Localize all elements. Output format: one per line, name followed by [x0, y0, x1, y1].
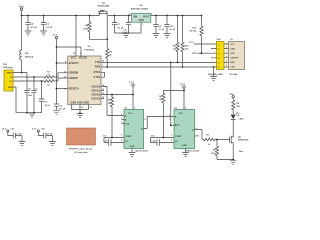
resistor R12	[181, 16, 184, 68]
svg-text:CTS#: CTS#	[94, 75, 101, 79]
ground	[77, 114, 84, 118]
svg-text:C5: C5	[28, 89, 30, 91]
CN2 ground	[213, 67, 215, 76]
svg-text:CN1: CN1	[3, 64, 8, 66]
capacitor C9	[153, 16, 158, 34]
svg-text:VCCIO: VCCIO	[79, 56, 87, 60]
svg-text:485/0.5A: 485/0.5A	[25, 55, 34, 58]
capacitor C17	[109, 139, 111, 145]
svg-text:2: 2	[121, 114, 122, 116]
capacitor C7	[112, 16, 117, 34]
resistor R9	[232, 100, 235, 114]
resistor R7	[204, 138, 230, 141]
supply VBUS top-left	[20, 8, 22, 10]
wire VCC drop to U2	[75, 16, 77, 57]
svg-text:GND: GND	[8, 87, 13, 89]
ferrite bead FB1	[20, 16, 22, 73]
svg-text:Q: Q	[141, 128, 143, 130]
capacitor C8	[126, 16, 131, 34]
svg-text:2: 2	[226, 47, 227, 49]
resistor R10	[200, 16, 203, 54]
svg-text:TXD: TXD	[95, 60, 100, 64]
svg-text:CX/RX: CX/RX	[125, 136, 132, 138]
wire U3 CLR stub	[122, 123, 125, 125]
IC U2 FT232RQ	[68, 56, 101, 105]
svg-text:CX: CX	[175, 141, 179, 143]
capacitor C12	[157, 139, 159, 145]
resistor R8	[215, 140, 233, 160]
wire U3 timing	[104, 138, 124, 143]
svg-text:4: 4	[196, 127, 197, 130]
U3 ground	[131, 149, 133, 153]
wire U5 timing	[151, 138, 175, 143]
svg-text:21: 21	[90, 107, 92, 109]
svg-text:27: 27	[48, 74, 50, 76]
svg-text:CBUS0: CBUS0	[91, 84, 100, 88]
ground	[40, 31, 47, 35]
wire top rail mid	[108, 15, 132, 17]
capacitor C6	[54, 104, 59, 110]
IC U5 monostable	[174, 110, 195, 149]
resistor R6	[162, 91, 165, 138]
svg-text:CX: CX	[125, 141, 129, 143]
svg-text:VOUT: VOUT	[143, 17, 150, 19]
svg-text:USBDM: USBDM	[69, 71, 79, 75]
Q2 ground	[232, 149, 234, 160]
U5 ground	[185, 149, 187, 153]
ground	[164, 33, 171, 37]
wire D+ with resistor R2	[13, 78, 68, 82]
svg-text:FT232RQ: FT232RQ	[84, 49, 94, 51]
wire U3 B stub	[122, 119, 125, 121]
svg-text:GND: GND	[139, 20, 144, 22]
resistor R4	[88, 16, 91, 40]
connector CN1	[4, 70, 13, 91]
svg-text:CBUS1: CBUS1	[91, 88, 100, 92]
svg-text:3: 3	[226, 52, 227, 54]
ground	[123, 33, 130, 37]
svg-text:47 µF: 47 µF	[45, 104, 51, 107]
svg-text:XBOARD-G400: XBOARD-G400	[208, 73, 224, 76]
svg-text:RTS#: RTS#	[94, 70, 101, 74]
capacitor C2	[39, 81, 45, 113]
capacitor C5	[24, 91, 29, 113]
svg-text:RUM002N02: RUM002N02	[238, 140, 248, 142]
wire top rail right (1.8V out)	[151, 15, 202, 17]
svg-text:22: 22	[102, 89, 104, 91]
wire P1.2 net	[194, 43, 214, 45]
resistor R11	[176, 16, 179, 63]
wire RESET#	[57, 88, 68, 90]
resistor R5	[110, 95, 113, 138]
LED D1	[231, 115, 236, 120]
wire U5 Q to LM1	[195, 130, 204, 140]
svg-text:100k: 100k	[83, 28, 89, 30]
capacitor C3	[41, 16, 46, 32]
svg-text:3.3 V: 3.3 V	[32, 129, 37, 131]
svg-text:RXD: RXD	[230, 62, 235, 64]
wire 3V3OUT	[57, 62, 68, 64]
svg-text:0.1 µF: 0.1 µF	[47, 133, 53, 135]
svg-text:RXD: RXD	[95, 64, 101, 68]
wire CBUS3 stub	[101, 98, 104, 100]
svg-text:16: 16	[64, 71, 66, 73]
svg-text:2: 2	[151, 14, 152, 16]
svg-text:ADP3347-18QKD: ADP3347-18QKD	[131, 8, 149, 11]
capacitor C4	[25, 16, 30, 32]
svg-text:USBDP: USBDP	[69, 76, 78, 80]
wire ground tie C7 C8 U4	[115, 22, 142, 33]
svg-text:1: 1	[226, 43, 227, 45]
svg-text:7: 7	[73, 107, 74, 109]
svg-text:1: 1	[121, 118, 122, 120]
svg-text:CP-2104: CP-2104	[229, 73, 238, 76]
wire RXD net	[101, 66, 214, 68]
capacitor C10	[164, 16, 169, 34]
wire VCCIO branch	[57, 47, 82, 56]
svg-text:VCC: VCC	[128, 113, 133, 115]
resistor R3	[106, 39, 109, 67]
svg-text:GND: GND	[182, 145, 187, 147]
svg-text:VCC: VCC	[179, 113, 184, 115]
svg-text:3.3 V: 3.3 V	[52, 34, 58, 36]
svg-text:VIN: VIN	[133, 17, 137, 19]
wire CBUS2 3.3V rail	[101, 94, 133, 96]
svg-text:30: 30	[102, 61, 104, 63]
svg-text:RESET#: RESET#	[69, 86, 80, 90]
svg-text:CBUS3: CBUS3	[91, 96, 100, 100]
svg-text:74LVC1G123: 74LVC1G123	[135, 149, 149, 152]
ground	[153, 33, 160, 37]
svg-text:74LVC1G123: 74LVC1G123	[186, 149, 200, 152]
svg-text:0.1 µF: 0.1 µF	[46, 27, 53, 29]
svg-text:23: 23	[102, 85, 104, 87]
svg-text:VBUS: VBUS	[7, 72, 13, 74]
svg-text:3V3OUT: 3V3OUT	[69, 61, 80, 65]
svg-text:2: 2	[102, 65, 103, 67]
svg-text:4: 4	[226, 55, 227, 58]
svg-text:GND GND GND: GND GND GND	[70, 100, 89, 104]
wire R4 to Q1 gate	[90, 38, 108, 40]
svg-text:2: 2	[169, 115, 170, 117]
svg-text:13: 13	[102, 93, 104, 95]
svg-text:CLR: CLR	[125, 124, 130, 126]
svg-text:3.3 V: 3.3 V	[180, 84, 185, 86]
svg-text:GND: GND	[130, 146, 135, 148]
svg-text:ON/OFF: ON/OFF	[230, 57, 239, 59]
wire U3 Q to U5 A	[144, 117, 175, 129]
svg-text:5: 5	[226, 61, 227, 63]
svg-text:Q: Q	[192, 130, 194, 132]
CN2 right stubs	[224, 44, 229, 67]
regulator U4	[132, 13, 151, 22]
svg-text:VCC: VCC	[71, 56, 77, 60]
svg-text:4.7 µF: 4.7 µF	[31, 26, 38, 29]
ground	[25, 31, 32, 35]
wire CBUS0 to U3	[101, 87, 124, 116]
svg-text:0.1 µF: 0.1 µF	[59, 109, 65, 111]
svg-text:19: 19	[64, 89, 66, 91]
svg-text:1: 1	[169, 119, 170, 121]
svg-text:0.5 mm pitch: 0.5 mm pitch	[74, 151, 88, 154]
wire RTS CTS loopback	[101, 72, 105, 77]
wire R6 top to U5 VCC	[163, 90, 184, 92]
svg-text:TXD: TXD	[230, 66, 235, 68]
svg-text:15: 15	[73, 53, 75, 55]
svg-text:6: 6	[171, 139, 172, 141]
svg-text:GND: GND	[230, 48, 235, 50]
capacitor C1 on D-	[31, 77, 36, 113]
wire ground rail	[16, 112, 42, 114]
svg-text:6: 6	[226, 65, 227, 67]
ground	[53, 110, 60, 114]
transistor Q2	[230, 136, 234, 149]
wire TXD net	[101, 61, 214, 63]
svg-text:UPS: UPS	[230, 53, 235, 55]
CN2 left stubs	[211, 44, 217, 67]
FFC cable note	[67, 128, 96, 145]
svg-text:8: 8	[65, 62, 66, 64]
svg-text:15: 15	[64, 77, 66, 79]
wire CBUS1 stub	[101, 90, 104, 92]
svg-text:FFC/FPC cable, 20-pin,: FFC/FPC cable, 20-pin,	[69, 149, 93, 151]
svg-text:VCC: VCC	[230, 44, 235, 46]
svg-text:1: 1	[142, 24, 143, 26]
svg-text:8: 8	[134, 108, 135, 110]
svg-text:6: 6	[121, 139, 122, 141]
svg-text:7: 7	[121, 134, 122, 136]
svg-text:D-: D-	[10, 77, 13, 79]
IC U3 monostable	[124, 110, 144, 149]
svg-text:10k (H): 10k (H)	[189, 31, 196, 33]
transistor Q1	[98, 12, 107, 40]
wire UPS net	[197, 52, 214, 54]
svg-text:0.1 µF: 0.1 µF	[16, 133, 22, 135]
svg-text:IRLML6402: IRLML6402	[98, 5, 110, 8]
svg-text:CX/RX: CX/RX	[175, 136, 182, 138]
svg-text:3: 3	[121, 122, 122, 124]
wire GND from CN1	[13, 87, 16, 113]
svg-text:1M: 1M	[159, 99, 162, 101]
wire U5 B from TXD	[171, 62, 174, 125]
svg-text:LED1: LED1	[239, 118, 245, 120]
svg-text:8: 8	[185, 108, 186, 110]
wire VBUS from CN1	[13, 73, 27, 91]
svg-text:14: 14	[102, 96, 104, 99]
svg-text:4: 4	[80, 52, 81, 55]
svg-text:1M: 1M	[108, 103, 111, 105]
svg-text:USB plug: USB plug	[3, 67, 14, 69]
svg-text:C1: C1	[35, 89, 37, 91]
svg-text:4: 4	[145, 118, 146, 121]
U2 ground pins	[72, 105, 89, 114]
svg-text:7: 7	[171, 134, 172, 136]
wire top rail left	[22, 15, 100, 17]
svg-text:UPS: UPS	[192, 53, 197, 55]
svg-text:18: 18	[81, 107, 83, 109]
svg-text:CLR: CLR	[175, 125, 180, 127]
svg-text:CBUS2: CBUS2	[91, 92, 100, 96]
ground	[29, 113, 36, 117]
svg-text:0.1 µF: 0.1 µF	[159, 29, 165, 31]
svg-text:R2: R2	[47, 85, 49, 87]
svg-text:1.8 V: 1.8 V	[2, 129, 7, 131]
wire D- with resistor R1	[13, 73, 68, 79]
svg-text:4.7 µF: 4.7 µF	[170, 28, 176, 31]
